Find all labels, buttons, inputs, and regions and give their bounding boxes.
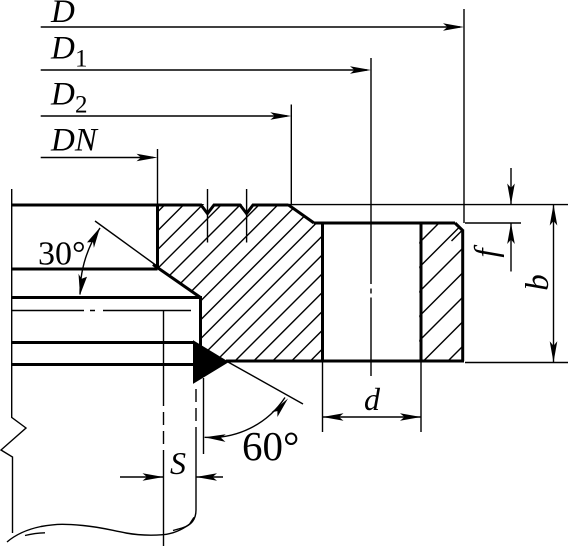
60deg weld bevel extension xyxy=(228,362,303,404)
hatching right flange block xyxy=(275,220,569,363)
notch extension line 2 xyxy=(246,189,248,243)
lower inner line xyxy=(12,341,194,344)
30deg angle arc xyxy=(80,228,100,295)
bolt hole left edge xyxy=(321,223,324,361)
wavy break line xyxy=(7,517,194,542)
bore edge line (far side) xyxy=(12,268,158,271)
svg-text:b: b xyxy=(520,274,556,291)
centerline of bolt hole / D1 extension xyxy=(370,58,372,376)
dimension line D1 xyxy=(41,69,367,71)
60deg vertex leg line xyxy=(203,378,205,454)
pipe inner wall xyxy=(163,310,165,393)
svg-text:D: D xyxy=(50,77,75,113)
dimension S line left xyxy=(120,476,164,478)
dimension f lower arrow xyxy=(510,223,512,272)
svg-text:1: 1 xyxy=(75,46,88,73)
flange top face xyxy=(314,222,455,225)
dimension line DN xyxy=(41,157,153,159)
30deg arc arrow top xyxy=(87,228,100,248)
raised face top with gasket notches xyxy=(12,205,289,214)
60deg arc arrow right xyxy=(272,396,291,417)
60deg angle arc xyxy=(205,398,285,438)
hatching left flange block xyxy=(7,203,469,363)
svg-text:d: d xyxy=(364,381,381,417)
svg-text:DN: DN xyxy=(50,123,99,159)
svg-text:2: 2 xyxy=(75,92,88,119)
extension line for D xyxy=(463,9,465,223)
flange bore wall xyxy=(156,204,159,269)
extension line bottom (b) xyxy=(465,362,568,364)
60deg arc arrow left xyxy=(204,434,225,442)
dimension b line xyxy=(553,205,555,363)
extension line top (b/f) xyxy=(289,204,569,206)
flange outer edge xyxy=(461,230,464,362)
pipe end face line xyxy=(12,296,202,299)
30deg arc arrow bottom xyxy=(79,274,88,295)
dimension line D2 xyxy=(41,115,287,117)
svg-text:30°: 30° xyxy=(38,236,86,273)
svg-text:60°: 60° xyxy=(242,423,299,469)
extension line for DN xyxy=(157,149,159,204)
pipe outer wall below flange xyxy=(195,389,197,436)
horizontal centerline xyxy=(12,310,191,312)
extension line f bottom xyxy=(465,222,521,224)
dimension S line right xyxy=(196,476,223,478)
30deg bore chamfer xyxy=(153,265,201,298)
bolt hole right edge xyxy=(420,223,423,361)
extension line for D2 xyxy=(290,105,292,206)
weld fillet (solid black) xyxy=(194,341,229,383)
dimension f upper arrow xyxy=(510,168,512,205)
flange bottom face xyxy=(226,360,464,363)
lower bottom line xyxy=(12,363,194,366)
corner hatch mark block B xyxy=(452,230,463,241)
raised face chamfer xyxy=(289,205,315,223)
break line flick xyxy=(25,533,45,536)
notch extension line 1 xyxy=(207,189,209,243)
socket bore wall xyxy=(199,296,202,346)
axis / break line at left xyxy=(1,189,26,533)
dimension d line xyxy=(323,416,422,418)
30deg chamfer thin extension xyxy=(95,221,157,266)
svg-text:S: S xyxy=(170,445,186,481)
bolt hole ext right xyxy=(420,361,422,432)
svg-text:D: D xyxy=(50,0,75,30)
outer corner chamfer xyxy=(455,223,463,231)
svg-text:f: f xyxy=(469,245,505,258)
dimension line D xyxy=(41,26,460,28)
svg-text:D: D xyxy=(50,31,75,67)
bolt hole ext left xyxy=(322,361,324,432)
